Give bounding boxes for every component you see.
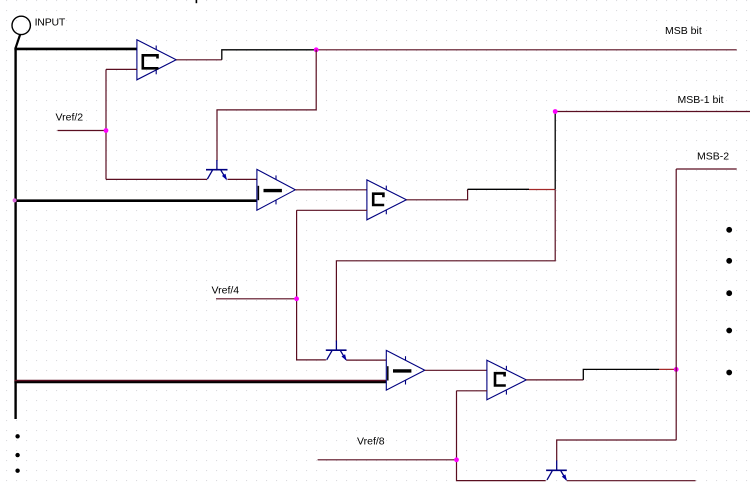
wire Vref/4 stub [216, 298, 297, 300]
wire bus to subtractor U2 bottom input [14, 199, 257, 202]
wire Vref/8 vertical [457, 391, 546, 481]
input port P1 [12, 16, 30, 47]
svg-text:MSB-2: MSB-2 [697, 150, 729, 162]
wire Vref/2 node to comparator U1 bottom input [106, 68, 137, 70]
wire bus to subtractor U4 bottom input [14, 381, 386, 383]
junction bus-U2 [13, 198, 17, 202]
svg-text:MSB-1 bit: MSB-1 bit [678, 94, 724, 106]
wire bus to comparator U1 top input [14, 48, 137, 51]
wire Q1 right terminal to subtractor U2 [228, 178, 258, 180]
wire Q2 right terminal to subtractor U4 [347, 359, 387, 361]
schmitt comparator U3 [367, 180, 407, 220]
wire schmitt U5 output [526, 379, 583, 381]
wire MSB-1 node down to Q2 base [336, 190, 555, 342]
svg-text:INPUT: INPUT [35, 16, 66, 28]
svg-text:Vref/2: Vref/2 [56, 112, 84, 124]
junction MSB node [314, 47, 319, 52]
wire schmitt U5 bottom input [457, 390, 488, 392]
wire subtractor U4 output to schmitt U5 [425, 369, 487, 371]
wire comparator U1 output [176, 59, 222, 61]
subtractor U4 [386, 350, 425, 390]
svg-text:Vref/4: Vref/4 [212, 285, 240, 297]
svg-text:MSB bit: MSB bit [665, 25, 702, 37]
ellipsis dots right [726, 227, 732, 375]
artifact tick top edge [196, 0, 198, 3]
subtractor U2 [257, 169, 295, 210]
comparator U1 [137, 40, 176, 80]
junction Vref/2 [104, 128, 109, 133]
transistor Q3 [546, 461, 567, 481]
wire step to MSB-1 vertical (black) [468, 188, 529, 190]
wire schmitt U3 output with step [406, 189, 467, 200]
wire Q3 right terminal [567, 480, 696, 482]
transistor Q1 [206, 160, 228, 180]
transistor Q2 [326, 341, 347, 361]
wire Vref/8 stub [318, 459, 457, 461]
wire Vref/2 stub [58, 130, 107, 132]
wire MSB-2 node down to Q3 base [557, 440, 677, 461]
junction Vref/4 [294, 296, 299, 301]
wire schmitt U3 bottom input [297, 209, 367, 211]
wire output step up (black) [583, 369, 659, 380]
wire MSB node down to Q1 base [217, 50, 316, 161]
wire Vref/2 to Q1 left terminal [106, 178, 207, 180]
wire MSB bit [316, 49, 737, 51]
wire output step up [222, 50, 316, 60]
wire MSB-2 vertical [675, 169, 677, 440]
wire to MSB-1 vertical (red) [529, 189, 555, 191]
wire Vref/2 vertical [105, 69, 107, 179]
wire MSB-1 bit [555, 111, 750, 113]
wire step to MSB-2 node (red) [659, 368, 676, 370]
junction MSB-2 node [674, 367, 679, 372]
schmitt comparator U5 [487, 360, 526, 400]
wire Vref/4 vertical [297, 210, 326, 360]
junction MSB-1 node [553, 109, 558, 114]
junction Vref/8 [454, 457, 459, 462]
ellipsis dots bottom left [15, 434, 19, 473]
svg-text:Vref/8: Vref/8 [357, 436, 385, 448]
wire subtractor U2 output to schmitt U3 [295, 189, 367, 191]
wire input bus vertical [14, 47, 16, 419]
wire MSB-2 bit [676, 168, 737, 170]
wire MSB-1 vertical upper (black) [554, 112, 556, 190]
